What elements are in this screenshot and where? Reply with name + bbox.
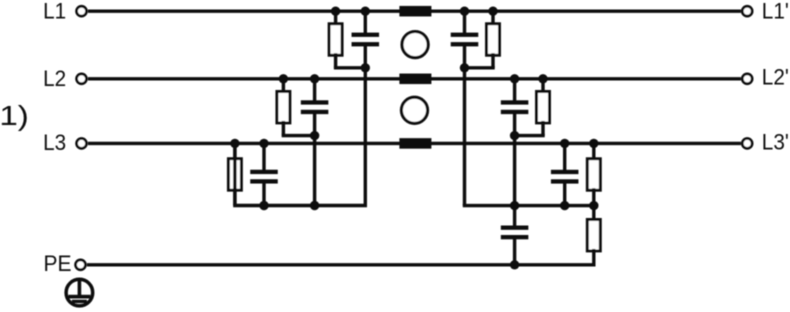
svg-text:L3': L3' bbox=[762, 130, 789, 155]
svg-text:L3: L3 bbox=[43, 130, 66, 155]
svg-text:L1': L1' bbox=[762, 0, 789, 24]
svg-text:L2: L2 bbox=[43, 66, 66, 91]
svg-text:L1: L1 bbox=[43, 0, 66, 24]
svg-text:PE: PE bbox=[44, 251, 72, 276]
svg-text:L2': L2' bbox=[762, 65, 789, 90]
svg-text:1): 1) bbox=[0, 100, 29, 131]
